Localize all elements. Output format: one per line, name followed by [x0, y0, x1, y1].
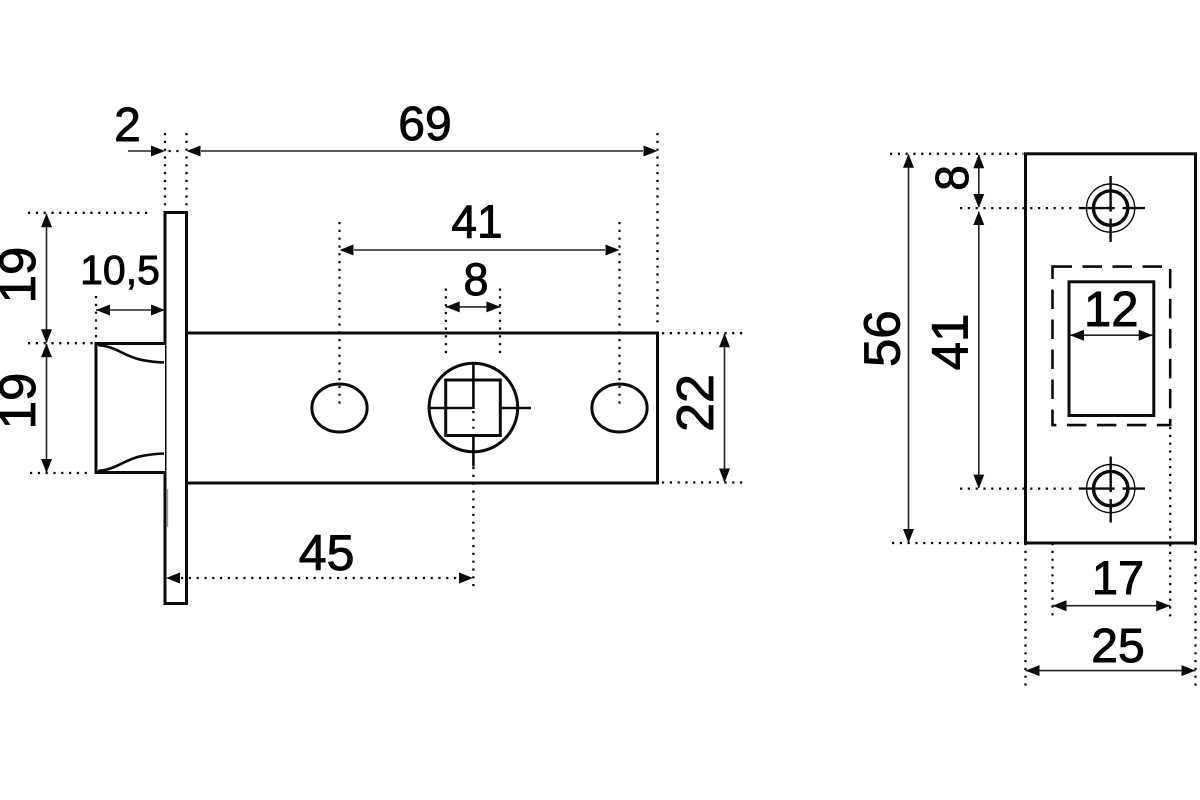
- top hole crosshair horizontal right: [1123, 207, 1146, 209]
- dimension 41 line (plate): [978, 212, 980, 488]
- dimension 41 line (left view): [354, 249, 605, 251]
- svg-text:19: 19: [0, 247, 46, 304]
- dimension 25 line: [1026, 670, 1196, 672]
- extension line plate right down (dim 25): [1194, 543, 1196, 689]
- dimension 10,5 line: [96, 309, 165, 311]
- left fixing hole (oval): [312, 384, 367, 432]
- spindle centerline horizontal right: [500, 407, 531, 410]
- extension line bolt bottom (dim 19): [30, 472, 90, 474]
- svg-text:10,5: 10,5: [80, 247, 160, 293]
- spindle square hole (8mm): [446, 380, 501, 436]
- dimension 22 line: [724, 334, 726, 482]
- svg-text:25: 25: [1091, 620, 1144, 673]
- top hole crosshair horizontal left: [1079, 207, 1115, 209]
- dimension 2 leader line: [128, 150, 151, 152]
- extension line bolt top (dim 19): [28, 342, 94, 344]
- bottom hole crosshair vertical lower: [1109, 499, 1111, 522]
- extension line opening left down (dim 17): [1051, 543, 1053, 620]
- latch bolt outline: [96, 344, 165, 473]
- dimension 2 dotted between plates: [169, 150, 184, 152]
- svg-text:19: 19: [0, 373, 46, 430]
- svg-text:45: 45: [299, 525, 355, 581]
- strike plate outline: [1026, 154, 1196, 543]
- top hole crosshair vertical upper: [1109, 176, 1111, 212]
- extension line top hole center (dim 8/41): [960, 207, 1077, 209]
- extension line body top right (dim 22): [662, 332, 744, 334]
- svg-text:17: 17: [1092, 551, 1144, 604]
- bottom hole crosshair horizontal left: [1079, 487, 1115, 489]
- faceplate (2mm front plate): [165, 213, 187, 604]
- extension line bottom hole center (dim 41): [960, 487, 1077, 489]
- extension line plate top (dim 56/8): [890, 153, 1024, 155]
- bottom hole crosshair vertical upper: [1109, 457, 1111, 493]
- top screw hole inner circle: [1093, 191, 1127, 225]
- top hole crosshair vertical lower: [1109, 219, 1111, 242]
- spindle centerline vertical upper: [472, 363, 475, 409]
- dimension 8 line (plate): [978, 155, 980, 207]
- dimension 17 line: [1053, 605, 1171, 607]
- extension line right oval center (dim 41): [618, 222, 620, 408]
- bottom hole crosshair horizontal right: [1123, 487, 1146, 489]
- extension line spindle center down (dim 45): [472, 467, 474, 588]
- spindle centerline vertical dotted middle: [472, 411, 474, 435]
- latch opening inner rectangle (12mm): [1069, 282, 1154, 416]
- extension line bolt left (dim 10,5): [95, 296, 97, 341]
- latch bolt top bevel curve: [98, 345, 164, 363]
- extension line plate left down (dim 25): [1024, 543, 1026, 689]
- spindle centerline horizontal left: [428, 407, 472, 410]
- extension line faceplate top (dim 19): [28, 212, 149, 214]
- latch bolt bottom bevel curve: [98, 454, 164, 472]
- latch body (69mm case): [187, 333, 658, 483]
- latch opening dashed rectangle: [1053, 267, 1171, 426]
- bottom screw hole inner circle: [1094, 471, 1128, 505]
- svg-text:69: 69: [398, 98, 451, 151]
- extension line opening right down (dim 17): [1169, 427, 1171, 618]
- extension line faceplate left edge (dim 2): [164, 133, 166, 207]
- svg-text:22: 22: [667, 374, 725, 432]
- extension line square left (dim 8): [445, 289, 447, 358]
- svg-text:56: 56: [854, 310, 911, 367]
- top screw hole outer circle: [1087, 184, 1135, 232]
- svg-text:41: 41: [451, 196, 502, 248]
- svg-text:8: 8: [926, 165, 978, 191]
- svg-text:8: 8: [463, 254, 488, 305]
- spindle centerline vertical lower: [472, 436, 475, 467]
- extension line body bottom right (dim 22): [662, 481, 744, 483]
- extension line body right end (dim 69): [656, 133, 658, 327]
- extension line plate bottom (dim 56): [892, 542, 1024, 544]
- faceplate faint seam line: [167, 489, 169, 527]
- svg-text:12: 12: [1084, 283, 1139, 337]
- dimension 8 line (left view): [446, 306, 501, 308]
- dimension 69 line: [201, 150, 643, 152]
- dimension 45 dotted line: [181, 577, 458, 579]
- bottom screw hole outer circle: [1087, 465, 1135, 513]
- spindle hub circle: [429, 363, 518, 452]
- svg-text:2: 2: [114, 99, 141, 152]
- dimension 19 bottom line: [46, 344, 48, 472]
- dimension 19 top line: [46, 214, 48, 343]
- extension line faceplate right edge (dim 2/69): [185, 133, 187, 207]
- extension line left oval center (dim 41): [338, 222, 340, 408]
- svg-text:41: 41: [922, 314, 979, 371]
- extension line square right (dim 8): [499, 289, 501, 358]
- right fixing hole (oval): [592, 384, 647, 432]
- dimension 12 line: [1070, 334, 1153, 336]
- dimension 56 line: [908, 155, 910, 542]
